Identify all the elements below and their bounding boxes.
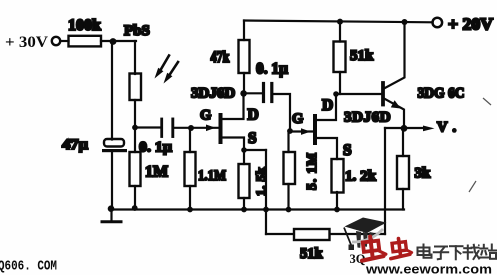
junction node after 100k xyxy=(110,38,117,45)
scan artifact marks xyxy=(483,98,491,105)
wire C1 to gate node xyxy=(174,127,219,129)
resistor 51k right xyxy=(334,42,346,73)
junction ground xyxy=(108,205,115,212)
wire 1.2k to rail xyxy=(336,192,338,210)
watermark logo dark cap xyxy=(344,218,387,267)
svg-text:1M: 1M xyxy=(145,164,168,181)
ground rail xyxy=(111,208,404,210)
watermark gray arc xyxy=(352,229,383,242)
resistor 3k xyxy=(397,156,409,189)
resistor 47k xyxy=(239,40,250,73)
resistor 5.1M xyxy=(284,152,296,184)
junction gate 1 node xyxy=(188,125,194,131)
svg-text:G: G xyxy=(292,111,303,127)
junction drain2 xyxy=(333,91,339,97)
wire PbS to node A xyxy=(134,100,136,152)
svg-text:1. 2k: 1. 2k xyxy=(345,169,377,185)
char zhan xyxy=(480,245,497,259)
watermark red bug 1 xyxy=(359,235,386,261)
wire 5.1M leads xyxy=(287,131,289,152)
wire 51k leads xyxy=(339,22,341,42)
char zai xyxy=(464,244,480,259)
wire 1M to rail xyxy=(134,186,136,210)
wire node A to cap 0.1u xyxy=(135,126,160,128)
wire 3k leads xyxy=(402,128,404,156)
JFET U2 source lead xyxy=(316,138,337,159)
wire terminal to R 100k xyxy=(61,40,69,42)
svg-text:5. 1M: 5. 1M xyxy=(304,152,319,190)
gate1 arrow xyxy=(206,125,216,132)
junction emitter node xyxy=(401,125,408,132)
JFET U1 drain lead xyxy=(221,93,244,119)
wire down to PbS xyxy=(134,41,136,74)
svg-text:D: D xyxy=(248,107,259,124)
resistor 1.1M xyxy=(185,152,196,186)
junction gate2 xyxy=(287,128,293,134)
svg-text:S: S xyxy=(343,142,352,159)
node A junction xyxy=(132,125,138,131)
output dot xyxy=(452,128,457,133)
junction stub rail crossing xyxy=(263,207,269,213)
svg-text:www.eeworm.com: www.eeworm.com xyxy=(365,263,492,276)
char zi xyxy=(434,247,448,260)
svg-text:100k: 100k xyxy=(68,17,101,34)
junction source1 xyxy=(241,147,247,153)
resistor 51k feedback xyxy=(294,229,330,240)
photoresistor PbS xyxy=(130,74,142,101)
svg-text:PbS: PbS xyxy=(124,23,150,39)
resistor 100k xyxy=(69,36,102,47)
capacitor C2 0.1u plates xyxy=(262,84,265,102)
junction top rail 51k xyxy=(337,19,343,25)
rail junction dots xyxy=(132,205,138,211)
JFET U1 source lead xyxy=(221,138,244,151)
resistor 1M xyxy=(130,152,141,186)
wire 100k to node xyxy=(101,40,136,42)
svg-text:51k: 51k xyxy=(300,246,324,262)
svg-text:G: G xyxy=(200,108,211,124)
transistor collector lead xyxy=(384,22,405,89)
capacitor C1 0.1u plates xyxy=(160,119,163,137)
transistor Q1 3DG6C base bar xyxy=(381,83,385,105)
wire source1 to 1.5k and rail xyxy=(243,150,245,164)
svg-text:0. 1µ: 0. 1µ xyxy=(139,140,172,156)
capacitor 47u bottom plate xyxy=(102,149,127,152)
wire C2 to gate2 xyxy=(273,94,290,132)
light arrow 1 xyxy=(155,56,170,79)
wire drain1 to C2 xyxy=(244,92,263,94)
JFET U2 channel bar xyxy=(290,130,313,132)
resistor 1.5k xyxy=(239,164,250,198)
capacitor 47u electrolytic top plate xyxy=(104,139,124,147)
svg-text:0. 1µ: 0. 1µ xyxy=(256,61,288,78)
ground symbol xyxy=(110,210,112,222)
wire source1 branch right xyxy=(244,149,266,151)
svg-text:3DJ6D: 3DJ6D xyxy=(191,86,235,102)
top rail +20V xyxy=(244,21,433,23)
watermark CJK dianzi xiazaizhan xyxy=(418,244,497,259)
wire feedback stub down xyxy=(265,150,267,234)
wire feedback up to emitter xyxy=(384,128,386,234)
feedback line bottom xyxy=(266,233,385,235)
terminal +30V xyxy=(52,37,60,45)
wire node to 47u cap xyxy=(111,41,113,140)
JFET U2 drain lead xyxy=(316,94,336,120)
light arrow 2 xyxy=(164,62,179,84)
wire 47u to ground rail xyxy=(111,152,113,210)
transistor emitter lead xyxy=(384,99,404,129)
svg-text:S: S xyxy=(248,130,257,147)
svg-text:+ 20V: + 20V xyxy=(448,15,493,34)
svg-text:V: V xyxy=(437,120,448,136)
watermark tassel line xyxy=(344,228,352,247)
terminal +20V xyxy=(433,18,443,28)
char xia xyxy=(450,246,463,259)
gate2 arrow xyxy=(301,128,311,135)
resistor 1.2k xyxy=(332,159,344,193)
svg-text:1.1M: 1.1M xyxy=(198,168,226,184)
output wire and arrow V xyxy=(385,127,425,129)
JFET U1 channel bar xyxy=(219,115,223,142)
svg-text:D: D xyxy=(322,97,333,114)
junction drain1 xyxy=(240,90,247,97)
svg-text:3DJ6D: 3DJ6D xyxy=(344,110,391,126)
svg-text:47µ: 47µ xyxy=(62,137,88,153)
emitter arrow xyxy=(391,100,401,108)
char dian xyxy=(418,245,432,258)
svg-text:47k: 47k xyxy=(211,48,230,66)
wire 47k leads xyxy=(243,21,245,41)
svg-text:3DG 6C: 3DG 6C xyxy=(418,86,465,102)
svg-text:3k: 3k xyxy=(415,166,432,182)
svg-text:+ 30V: + 30V xyxy=(5,34,48,51)
watermark red bug 2 xyxy=(389,237,413,258)
svg-text:51k: 51k xyxy=(350,48,374,64)
svg-text:Q606. COM: Q606. COM xyxy=(0,259,57,275)
wire drain2 to base xyxy=(336,93,382,95)
junction collector rail xyxy=(402,19,408,25)
wire 1.1M leads xyxy=(189,128,191,152)
